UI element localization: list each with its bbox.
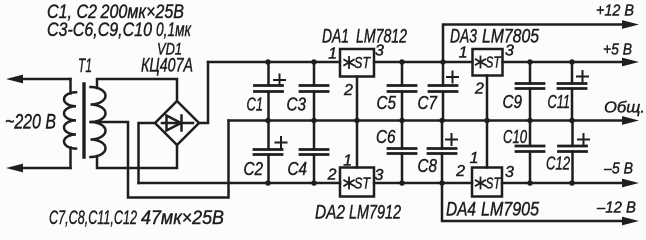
svg-text:С12: С12	[546, 154, 570, 174]
svg-text:Общ.: Общ.	[604, 100, 645, 117]
svg-text:С9: С9	[503, 92, 523, 112]
svg-text:+12 В: +12 В	[596, 2, 634, 19]
svg-text:1: 1	[470, 150, 479, 167]
svg-text:1: 1	[459, 45, 468, 62]
svg-text:С4: С4	[288, 159, 308, 179]
svg-text:3: 3	[505, 43, 514, 60]
svg-text:С3: С3	[287, 95, 307, 115]
svg-text:С7,С8,С11,С12: С7,С8,С11,С12	[49, 208, 137, 229]
svg-text:С10: С10	[503, 127, 527, 147]
svg-text:47мк×25В: 47мк×25В	[141, 208, 224, 229]
svg-text:~220 В: ~220 В	[5, 111, 56, 134]
svg-text:2: 2	[455, 163, 465, 180]
svg-text:3: 3	[375, 167, 384, 184]
svg-text:С2: С2	[244, 159, 264, 179]
svg-text:0,1мк: 0,1мк	[156, 20, 192, 41]
svg-text:С3-С6,С9,С10: С3-С6,С9,С10	[47, 20, 152, 41]
svg-text:С5: С5	[377, 93, 397, 113]
svg-text:С1: С1	[247, 95, 264, 115]
svg-text:ST: ST	[354, 176, 371, 193]
svg-text:1: 1	[328, 46, 337, 63]
svg-text:2: 2	[343, 82, 353, 99]
svg-text:ST: ST	[354, 55, 371, 72]
svg-text:С7: С7	[418, 93, 438, 113]
svg-text:КЦ407А: КЦ407А	[141, 55, 193, 76]
svg-text:–5 В: –5 В	[603, 161, 633, 178]
svg-text:ST: ST	[486, 176, 502, 193]
svg-text:2: 2	[327, 167, 337, 184]
svg-text:LM7912: LM7912	[349, 203, 401, 224]
svg-text:DA1: DA1	[322, 27, 349, 48]
svg-text:–12 В: –12 В	[596, 200, 636, 217]
svg-text:DA2: DA2	[315, 203, 345, 224]
svg-text:С8: С8	[418, 156, 438, 176]
svg-text:Т1: Т1	[78, 56, 92, 77]
svg-text:2: 2	[474, 81, 484, 98]
svg-text:LM7905: LM7905	[481, 200, 539, 221]
svg-text:С11: С11	[548, 92, 571, 112]
svg-text:ST: ST	[486, 55, 502, 72]
svg-text:+5 В: +5 В	[603, 42, 632, 59]
svg-text:1: 1	[343, 153, 352, 170]
svg-text:С6: С6	[376, 127, 396, 147]
svg-text:3: 3	[505, 164, 514, 181]
svg-text:DA4: DA4	[446, 200, 476, 221]
svg-text:3: 3	[375, 43, 384, 60]
